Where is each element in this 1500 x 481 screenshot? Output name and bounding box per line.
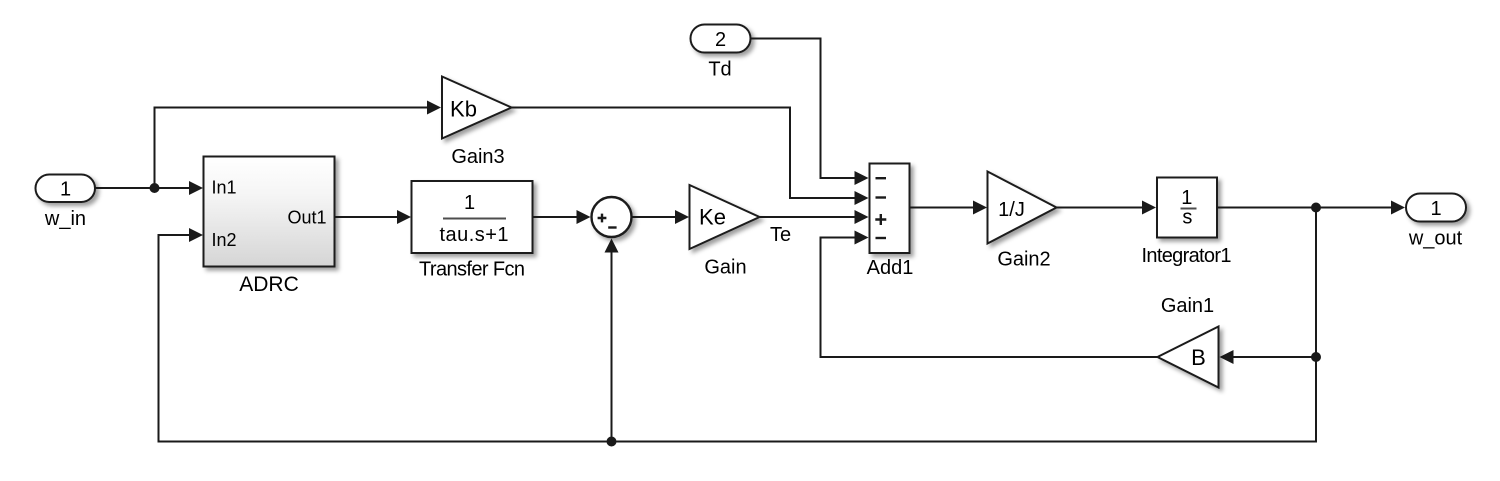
svg-text:1: 1 [1430, 198, 1441, 220]
block Transfer Fcn [412, 181, 533, 253]
svg-text:Transfer Fcn: Transfer Fcn [419, 259, 525, 281]
wire Gain1 output to Add1 port4 [821, 238, 1158, 358]
svg-text:In2: In2 [212, 230, 237, 250]
svg-text:s: s [1182, 207, 1192, 229]
svg-text:In1: In1 [212, 178, 237, 198]
junction dot on output wire [1311, 203, 1321, 213]
wire Gain2 to Integrator1 [1057, 207, 1143, 209]
wire branch up to Gain3 [155, 108, 428, 189]
svg-text:Add1: Add1 [867, 257, 914, 279]
wire Transfer Fcn to Sum [533, 216, 578, 218]
wire bottom into Sum [611, 251, 613, 442]
output port 1 w_out [1406, 194, 1466, 222]
svg-text:Gain2: Gain2 [997, 249, 1050, 271]
svg-text:B: B [1191, 345, 1206, 370]
input port 2 Td [691, 25, 751, 53]
wire Ke to Add1 port3 (Te) [760, 216, 856, 218]
svg-text:Gain: Gain [704, 257, 746, 279]
svg-text:Ke: Ke [699, 205, 726, 230]
wire Td to Add1 port1 [751, 39, 856, 179]
wire junction to Gain1 (B) [1233, 356, 1316, 358]
svg-text:tau.s+1: tau.s+1 [440, 224, 509, 246]
junction dot feedback to Gain1 [1311, 352, 1321, 362]
gain Gain (Ke) [690, 185, 760, 249]
svg-text:Kb: Kb [450, 97, 477, 122]
svg-text:Gain1: Gain1 [1161, 295, 1214, 317]
wire w_in to ADRC In1 [95, 187, 191, 189]
junction dot bottom wire to Sum [607, 437, 617, 447]
svg-text:1: 1 [60, 179, 71, 201]
junction dot on w_in wire [150, 183, 160, 193]
wire ADRC Out1 to Transfer Fcn [335, 216, 398, 218]
svg-text:1/J: 1/J [998, 199, 1025, 221]
svg-text:w_out: w_out [1408, 228, 1463, 250]
wire Sum to Gain (Ke) [632, 216, 676, 218]
feedback wire down-left-up to ADRC In2 [159, 208, 1317, 442]
svg-text:Te: Te [770, 224, 791, 246]
input port 1 w_in [36, 175, 96, 203]
wire Gain3 to Add1 port2 [512, 108, 856, 199]
svg-text:w_in: w_in [44, 208, 86, 230]
gain Gain3 (Kb) [442, 77, 512, 139]
svg-text:Td: Td [708, 59, 731, 81]
gain Gain1 (B) [1158, 327, 1219, 388]
block Add1 [870, 164, 910, 254]
svg-text:Out1: Out1 [287, 208, 326, 228]
sum block [592, 197, 632, 237]
gain Gain2 (1/J) [988, 172, 1057, 244]
svg-text:Gain3: Gain3 [451, 146, 504, 168]
svg-text:ADRC: ADRC [239, 273, 299, 296]
svg-text:2: 2 [715, 29, 726, 51]
wire Add1 to Gain2 [910, 207, 974, 209]
subsystem ADRC [204, 157, 335, 267]
svg-text:Integrator1: Integrator1 [1142, 245, 1232, 267]
block Integrator1 [1157, 178, 1217, 238]
svg-text:1: 1 [464, 192, 475, 214]
wire Integrator1 to output port w_out [1217, 207, 1392, 209]
